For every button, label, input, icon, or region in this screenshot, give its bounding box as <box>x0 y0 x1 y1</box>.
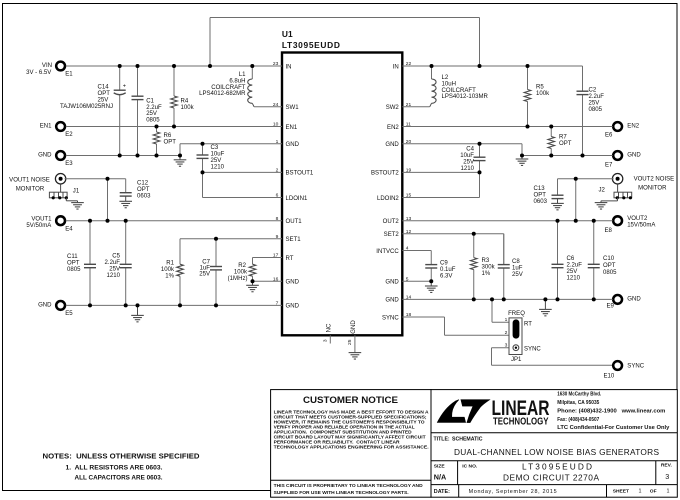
svg-text:TECHNOLOGY APPLICATIONS ENGINE: TECHNOLOGY APPLICATIONS ENGINEERING FOR … <box>274 445 430 451</box>
svg-text:BSTOUT2: BSTOUT2 <box>371 171 399 177</box>
svg-text:E9: E9 <box>607 304 615 310</box>
svg-text:NOTES: UNLESS OTHERWISE SPECI: NOTES: UNLESS OTHERWISE SPECIFIED <box>43 452 201 461</box>
svg-text:OPT: OPT <box>137 187 150 193</box>
svg-text:GND: GND <box>38 153 52 159</box>
svg-text:10uF: 10uF <box>211 152 225 158</box>
svg-text:C13: C13 <box>534 186 546 192</box>
svg-text:Milpitas, CA 95035: Milpitas, CA 95035 <box>557 400 599 406</box>
svg-text:Monday, September 28, 2015: Monday, September 28, 2015 <box>469 489 557 495</box>
svg-text:C4: C4 <box>466 147 474 153</box>
svg-text:MONITOR: MONITOR <box>16 186 45 192</box>
svg-text:JP1: JP1 <box>511 357 522 363</box>
svg-text:C9: C9 <box>440 261 448 267</box>
svg-text:INTVCC: INTVCC <box>376 249 399 255</box>
svg-text:SYNC: SYNC <box>382 315 399 321</box>
svg-text:THIS CIRCUIT IS PROPRIETARY TO: THIS CIRCUIT IS PROPRIETARY TO LINEAR TE… <box>274 483 423 489</box>
svg-text:0.1uF: 0.1uF <box>440 267 456 273</box>
svg-text:0805: 0805 <box>603 270 617 276</box>
svg-text:1%: 1% <box>482 271 491 277</box>
svg-text:100k: 100k <box>234 269 248 275</box>
svg-text:BSTOUT1: BSTOUT1 <box>286 171 314 177</box>
svg-text:REV.: REV. <box>661 463 673 469</box>
svg-text:FREQ: FREQ <box>508 311 525 317</box>
svg-text:10uH: 10uH <box>442 81 456 87</box>
svg-text:C1: C1 <box>146 98 154 104</box>
svg-text:VOUT2: VOUT2 <box>627 216 648 222</box>
svg-text:GND: GND <box>286 280 300 286</box>
svg-text:E2: E2 <box>65 132 73 138</box>
svg-text:LDOIN1: LDOIN1 <box>286 196 308 202</box>
svg-text:DUAL-CHANNEL LOW NOISE BIAS GE: DUAL-CHANNEL LOW NOISE BIAS GENERATORS <box>454 447 659 457</box>
svg-text:TITLE:: TITLE: <box>434 437 450 443</box>
svg-text:COILCRAFT: COILCRAFT <box>442 88 477 94</box>
svg-text:SW1: SW1 <box>286 105 300 111</box>
svg-text:R1: R1 <box>166 261 174 267</box>
svg-text:SET1: SET1 <box>286 237 302 243</box>
svg-text:25V: 25V <box>98 98 109 104</box>
svg-text:3V - 6.5V: 3V - 6.5V <box>26 70 51 76</box>
svg-text:C12: C12 <box>137 181 149 187</box>
svg-text:1uF: 1uF <box>512 265 523 271</box>
svg-text:0805: 0805 <box>589 107 603 113</box>
svg-text:E6: E6 <box>605 133 613 139</box>
svg-text:10uF: 10uF <box>460 153 474 159</box>
svg-text:SIZE: SIZE <box>434 463 446 469</box>
svg-text:SCHEMATIC: SCHEMATIC <box>452 437 483 443</box>
svg-text:2: 2 <box>505 330 508 336</box>
svg-text:0603: 0603 <box>534 199 548 205</box>
svg-text:VIN: VIN <box>42 63 52 69</box>
svg-text:EN2: EN2 <box>627 123 639 129</box>
svg-text:1210: 1210 <box>461 166 475 172</box>
svg-text:GND: GND <box>286 304 300 310</box>
svg-text:E1: E1 <box>65 72 73 78</box>
svg-text:OPT: OPT <box>164 140 177 146</box>
svg-text:6.3V: 6.3V <box>440 273 452 279</box>
svg-text:0805: 0805 <box>67 267 81 273</box>
svg-text:100k: 100k <box>181 105 195 111</box>
svg-text:C5: C5 <box>112 254 120 260</box>
svg-text:15V/50mA: 15V/50mA <box>627 223 656 229</box>
svg-text:EN1: EN1 <box>40 123 52 129</box>
svg-text:LT3095EUDD: LT3095EUDD <box>522 461 592 471</box>
svg-text:GND: GND <box>385 298 399 304</box>
svg-text:R3: R3 <box>482 258 490 264</box>
svg-text:VOUT1 NOISE: VOUT1 NOISE <box>9 177 50 183</box>
svg-text:TAJW106M025RNJ: TAJW106M025RNJ <box>60 104 113 110</box>
svg-text:2.2uF: 2.2uF <box>146 105 162 111</box>
svg-text:R5: R5 <box>536 85 544 91</box>
svg-text:GND: GND <box>38 303 52 309</box>
svg-text:25V: 25V <box>211 158 222 164</box>
svg-text:1: 1 <box>667 489 670 495</box>
svg-text:N/A: N/A <box>434 473 446 482</box>
svg-text:IN: IN <box>286 64 292 70</box>
svg-text:E3: E3 <box>65 161 73 167</box>
svg-text:5V/50mA: 5V/50mA <box>26 223 52 229</box>
svg-text:E5: E5 <box>65 311 73 317</box>
svg-text:1210: 1210 <box>107 273 121 279</box>
svg-text:1: 1 <box>505 317 508 323</box>
svg-text:Fax: (408)434-0507: Fax: (408)434-0507 <box>557 417 599 423</box>
svg-text:OUT2: OUT2 <box>383 219 400 225</box>
svg-text:ALL CAPACITORS ARE 0603.: ALL CAPACITORS ARE 0603. <box>75 474 163 481</box>
svg-text:1%: 1% <box>165 274 174 280</box>
svg-text:VOUT1: VOUT1 <box>31 216 52 222</box>
svg-text:OPT: OPT <box>534 193 547 199</box>
svg-text:0603: 0603 <box>137 194 151 200</box>
svg-text:SHEET: SHEET <box>613 489 629 495</box>
svg-text:DATE:: DATE: <box>434 489 450 495</box>
svg-text:+: + <box>123 84 126 90</box>
svg-text:OPT: OPT <box>98 91 111 97</box>
svg-text:2.2uF: 2.2uF <box>567 263 583 269</box>
svg-text:LT3095EUDD: LT3095EUDD <box>282 40 340 50</box>
svg-text:E7: E7 <box>605 163 613 169</box>
svg-text:0805: 0805 <box>146 118 160 124</box>
svg-text:25: 25 <box>347 339 353 345</box>
svg-text:NC: NC <box>326 323 332 332</box>
svg-text:3: 3 <box>323 339 329 342</box>
svg-text:R4: R4 <box>181 99 189 105</box>
svg-text:L1: L1 <box>239 72 246 78</box>
svg-text:6.8uH: 6.8uH <box>229 78 245 84</box>
svg-text:RT: RT <box>286 256 294 262</box>
svg-text:25V: 25V <box>589 101 600 107</box>
svg-text:C2: C2 <box>589 88 597 94</box>
svg-text:EN2: EN2 <box>387 125 399 131</box>
svg-text:OPT: OPT <box>603 263 616 269</box>
svg-text:TECHNOLOGY: TECHNOLOGY <box>493 416 549 427</box>
svg-text:1210: 1210 <box>211 165 225 171</box>
svg-text:MONITOR: MONITOR <box>638 186 667 192</box>
svg-text:GND: GND <box>385 142 399 148</box>
svg-text:C10: C10 <box>603 256 615 262</box>
svg-text:3: 3 <box>505 342 508 348</box>
svg-text:R7: R7 <box>559 135 567 141</box>
svg-text:J2: J2 <box>599 188 606 194</box>
svg-text:DEMO CIRCUIT 2270A: DEMO CIRCUIT 2270A <box>503 473 599 483</box>
svg-text:L2: L2 <box>442 75 449 81</box>
svg-text:R6: R6 <box>164 133 172 139</box>
svg-text:U1: U1 <box>282 29 293 39</box>
svg-text:25V: 25V <box>199 271 210 277</box>
svg-text:C8: C8 <box>512 259 520 265</box>
svg-text:SW2: SW2 <box>386 105 400 111</box>
svg-text:LPS4012-103MR: LPS4012-103MR <box>442 94 489 100</box>
svg-text:COILCRAFT: COILCRAFT <box>211 85 246 91</box>
svg-text:(1MHz): (1MHz) <box>228 276 248 282</box>
svg-text:OPT: OPT <box>559 141 572 147</box>
svg-text:SET2: SET2 <box>384 232 400 238</box>
svg-text:IC NO.: IC NO. <box>462 463 478 469</box>
svg-text:SYNC: SYNC <box>524 347 541 353</box>
svg-text:E4: E4 <box>65 226 73 232</box>
svg-text:100k: 100k <box>161 267 175 273</box>
svg-text:LPS4012-682MR: LPS4012-682MR <box>199 91 246 97</box>
svg-text:J1: J1 <box>73 189 80 195</box>
svg-text:C6: C6 <box>567 256 575 262</box>
svg-text:1. ALL RESISTORS ARE 0603.: 1. ALL RESISTORS ARE 0603. <box>66 464 163 471</box>
svg-text:2.2uF: 2.2uF <box>105 260 121 266</box>
svg-text:25V: 25V <box>146 111 157 117</box>
svg-text:LTC Confidential-For Customer: LTC Confidential-For Customer Use Only <box>557 425 669 431</box>
svg-text:Phone: (408)432-1900 www.lin: Phone: (408)432-1900 www.linear.com <box>557 408 665 414</box>
svg-text:LDOIN2: LDOIN2 <box>377 196 399 202</box>
svg-text:OPT: OPT <box>67 261 80 267</box>
svg-text:C3: C3 <box>211 145 219 151</box>
svg-text:GND: GND <box>627 153 641 159</box>
svg-text:CUSTOMER NOTICE: CUSTOMER NOTICE <box>303 395 398 405</box>
svg-text:C11: C11 <box>67 254 78 260</box>
svg-text:3: 3 <box>665 472 669 481</box>
svg-text:VOUT2 NOISE: VOUT2 NOISE <box>634 177 675 183</box>
svg-text:E8: E8 <box>605 228 613 234</box>
svg-text:SUPPLIED FOR USE WITH LINEAR T: SUPPLIED FOR USE WITH LINEAR TECHNOLOGY … <box>274 490 410 496</box>
svg-text:25V: 25V <box>512 272 523 278</box>
svg-text:GND: GND <box>351 320 357 334</box>
svg-text:OF: OF <box>650 489 657 495</box>
svg-text:1210: 1210 <box>567 276 581 282</box>
svg-text:300k: 300k <box>482 265 496 271</box>
svg-text:R2: R2 <box>238 263 246 269</box>
svg-text:RT: RT <box>524 322 532 328</box>
svg-text:25V: 25V <box>567 269 578 275</box>
svg-text:100k: 100k <box>536 91 550 97</box>
svg-text:GND: GND <box>286 142 300 148</box>
svg-text:OUT1: OUT1 <box>286 219 303 225</box>
svg-text:C14: C14 <box>98 85 110 91</box>
svg-text:SYNC: SYNC <box>627 363 644 369</box>
svg-text:GND: GND <box>385 280 399 286</box>
svg-text:25V: 25V <box>109 267 120 273</box>
svg-text:2.2uF: 2.2uF <box>589 94 605 100</box>
svg-text:E10: E10 <box>604 373 615 379</box>
svg-text:1630 McCarthy Blvd.: 1630 McCarthy Blvd. <box>557 391 601 397</box>
svg-text:IN: IN <box>393 64 399 70</box>
svg-text:EN1: EN1 <box>286 125 298 131</box>
svg-text:1: 1 <box>639 489 642 495</box>
svg-text:GND: GND <box>627 296 641 302</box>
svg-text:25V: 25V <box>463 160 474 166</box>
